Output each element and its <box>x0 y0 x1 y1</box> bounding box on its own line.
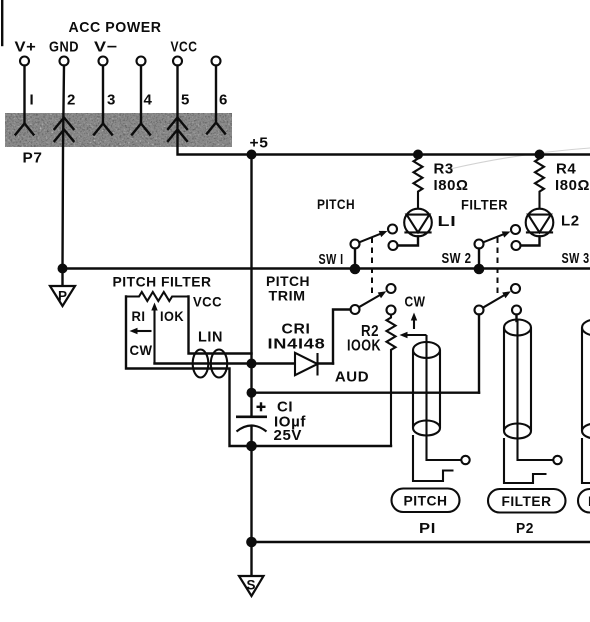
svg-text:6: 6 <box>219 92 228 109</box>
svg-text:PI: PI <box>419 520 436 537</box>
pin6 chevron <box>207 123 225 134</box>
svg-text:VCC: VCC <box>171 39 198 56</box>
wire pin4 <box>140 66 142 125</box>
R1 wiper arrow <box>151 303 157 364</box>
wire L1 to SW1 contact <box>398 236 419 245</box>
node R3 top junction <box>413 150 423 160</box>
svg-text:SW I: SW I <box>319 251 344 268</box>
bottom bus wire <box>252 541 590 543</box>
terminal circle pin5 <box>173 57 182 66</box>
wire SW2 pole to bus <box>478 249 480 269</box>
wire pin3 <box>102 66 104 125</box>
wire SW2 contact b to P2 shaft <box>515 315 517 322</box>
C1 plus sign <box>257 402 266 411</box>
switch SW2 lower pole <box>475 306 484 315</box>
wire wiper to coil line <box>155 362 252 364</box>
switch SW2 upper arm <box>483 231 510 242</box>
wire C1 bottom rail to R2 <box>252 445 392 447</box>
P3 pill label partial <box>578 489 590 513</box>
svg-text:TRIM: TRIM <box>269 288 306 304</box>
node +5 junction <box>247 150 257 160</box>
lamp L2 <box>526 209 554 237</box>
switch SW1 upper contact b <box>389 241 398 250</box>
R1 left terminal wire <box>126 297 252 447</box>
svg-text:GND: GND <box>49 39 79 56</box>
P2 case hook <box>504 438 547 483</box>
pin5 chevron double <box>168 118 187 142</box>
terminal circle pin1 <box>20 57 29 66</box>
switch SW1 lower contact <box>387 284 396 293</box>
R1 VCC terminal wire <box>189 297 252 354</box>
SW1 gang dashed link <box>371 238 373 295</box>
svg-text:P7: P7 <box>23 150 43 167</box>
svg-text:LIN: LIN <box>198 329 223 346</box>
potentiometer P1 body <box>413 342 440 436</box>
switch SW1 lower arm <box>359 291 386 307</box>
svg-text:AUD: AUD <box>335 369 369 386</box>
svg-text:FILTER: FILTER <box>502 493 552 509</box>
node coil junction <box>247 359 257 369</box>
capacitor C1 <box>236 417 267 446</box>
P2 terminal circle <box>553 456 561 464</box>
P1 shaft wire <box>427 343 462 460</box>
svg-text:FILTER: FILTER <box>461 197 508 213</box>
wire AUD line <box>252 392 480 394</box>
ground S symbol <box>239 576 264 596</box>
svg-text:R3: R3 <box>434 161 454 178</box>
wire SW2 lower pole to AUD line <box>478 315 480 393</box>
ground P symbol <box>50 286 75 306</box>
svg-text:I: I <box>30 92 35 109</box>
switch SW2 upper contact a <box>511 225 520 234</box>
trimmer R2 body <box>387 315 396 447</box>
wire L2 to SW2 contact <box>521 236 540 245</box>
pin1 chevron <box>16 124 34 135</box>
wire pin6 <box>215 66 217 124</box>
svg-text:VCC: VCC <box>193 294 222 310</box>
svg-text:IN4I48: IN4I48 <box>268 336 326 353</box>
svg-text:I80Ω: I80Ω <box>555 177 590 194</box>
trimmer R2 top contact <box>387 306 396 315</box>
terminal circle pin2 <box>60 57 69 66</box>
svg-text:SW 3: SW 3 <box>562 250 590 267</box>
P1 PITCH pill label <box>392 489 460 513</box>
potentiometer P3 body partial <box>582 320 590 439</box>
svg-text:PITCH FILTER: PITCH FILTER <box>113 274 212 290</box>
P1 terminal circle <box>461 456 469 464</box>
R2 wiper arrow to P1 shaft <box>400 332 427 344</box>
node AUD junction <box>247 388 257 398</box>
svg-text:3: 3 <box>107 92 116 109</box>
svg-text:+5: +5 <box>250 135 269 152</box>
page edge tick <box>1 0 3 45</box>
node bottom bus junction <box>246 537 257 548</box>
svg-text:S: S <box>246 578 255 593</box>
potentiometer P2 body <box>504 320 531 439</box>
svg-text:2: 2 <box>67 92 76 109</box>
switch SW1 upper contact a <box>388 225 397 234</box>
wire SW1 lower pole to diode line <box>333 310 351 364</box>
switch SW2 lower contact a <box>511 284 520 293</box>
wire pin2 GND <box>63 66 65 287</box>
pin3 chevron <box>94 124 112 135</box>
switch SW1 upper pole <box>351 240 360 249</box>
svg-text:P2: P2 <box>516 520 534 537</box>
switch SW2 lower contact b <box>512 306 521 315</box>
R2 CW direction arrow <box>411 313 417 330</box>
svg-text:RI: RI <box>132 308 146 324</box>
SW2 gang dashed link <box>497 238 499 295</box>
svg-text:5: 5 <box>181 92 190 109</box>
svg-text:PITCH: PITCH <box>404 493 448 509</box>
svg-text:25V: 25V <box>274 427 303 444</box>
P3 case hook partial <box>582 438 590 483</box>
wire C1 bottom to S ground <box>250 446 252 576</box>
terminal circle pin3 <box>99 57 108 66</box>
switch SW2 upper pole <box>475 240 484 249</box>
wire pin1 <box>23 66 25 125</box>
svg-text:CW: CW <box>130 342 153 358</box>
wire +5 vertical rail <box>250 155 252 417</box>
pin4 chevron <box>132 124 150 135</box>
switch SW1 upper arm <box>359 231 387 242</box>
scan artifact line <box>450 148 590 169</box>
node SW2 junction <box>474 264 485 275</box>
potentiometer R1 <box>126 292 189 301</box>
coil bead right <box>211 350 227 378</box>
lamp L1 <box>404 209 432 237</box>
svg-text:IOK: IOK <box>160 308 184 324</box>
resistor R3 <box>414 155 423 209</box>
switch SW2 lower arm <box>483 291 511 307</box>
P1 case hook <box>413 435 454 481</box>
terminal circle pin6 <box>212 57 221 66</box>
svg-text:V−: V− <box>94 39 118 56</box>
svg-text:L2: L2 <box>561 213 580 230</box>
terminal circle pin4 <box>137 57 146 66</box>
svg-text:ACC POWER: ACC POWER <box>69 19 162 36</box>
node R4 top junction <box>535 150 545 160</box>
wire SW1 pole to bus <box>354 249 356 269</box>
svg-text:R4: R4 <box>556 161 576 178</box>
svg-text:V+: V+ <box>15 39 37 56</box>
pin2 chevron double <box>55 118 74 142</box>
P2 shaft wire <box>518 321 554 461</box>
svg-text:IOOK: IOOK <box>347 338 381 355</box>
ground bus wire (second bus) <box>63 267 590 269</box>
svg-text:I80Ω: I80Ω <box>434 177 469 194</box>
svg-text:P: P <box>58 289 67 304</box>
svg-text:4: 4 <box>144 92 153 109</box>
switch SW1 lower pole <box>351 305 360 314</box>
resistor R4 <box>535 155 544 209</box>
svg-text:CW: CW <box>405 294 426 311</box>
wire pin5 VCC to +5 bus <box>178 66 590 155</box>
coil bead left <box>193 350 209 378</box>
svg-text:LI: LI <box>438 213 457 230</box>
P2 FILTER pill label <box>488 489 566 513</box>
connector P7 body <box>5 113 232 147</box>
svg-text:SW 2: SW 2 <box>442 250 472 267</box>
svg-text:PITCH: PITCH <box>317 196 355 212</box>
node C1 bottom junction <box>246 441 257 452</box>
R1 CW direction arrow <box>130 328 152 334</box>
switch SW2 upper contact b <box>512 241 521 250</box>
node SW1 junction <box>350 264 361 275</box>
node GND junction <box>58 264 68 274</box>
diode CR1 <box>252 353 334 376</box>
